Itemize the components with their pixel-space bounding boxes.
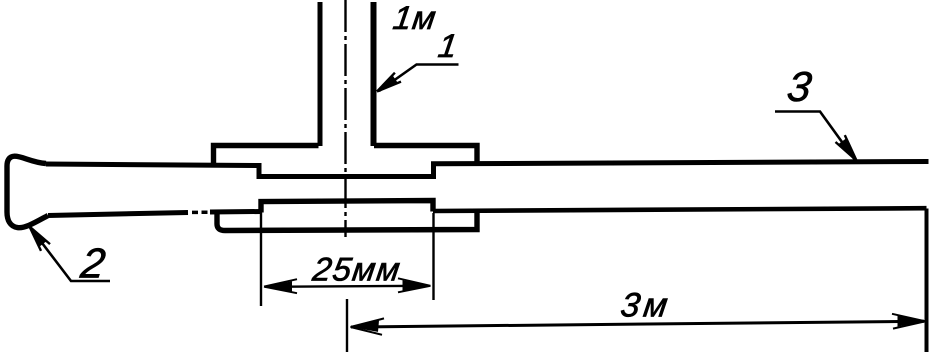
svg-text:25мм: 25мм	[309, 252, 403, 289]
mast centerline (dash-dot)	[344, 0, 346, 237]
svg-text:1м: 1м	[391, 0, 439, 37]
25mm left extension line	[260, 204, 262, 306]
3m dimension line	[351, 321, 924, 327]
bottom clamp plate	[217, 212, 477, 231]
lower tube line right of sleeve	[433, 208, 927, 211]
element 2 lower line break dashes	[192, 210, 208, 214]
25mm dimension line	[265, 286, 429, 287]
element 3 boom line (top horizontal with joint step)	[46, 162, 929, 177]
leader line for label 2	[30, 227, 111, 282]
3m right arrowhead	[892, 314, 926, 329]
3m left arrowhead	[351, 318, 385, 334]
svg-text:1: 1	[436, 28, 460, 65]
25mm right arrowhead	[398, 278, 431, 292]
25mm left arrowhead	[264, 279, 297, 293]
element 2 lower line (to sleeve)	[210, 209, 261, 215]
svg-text:2: 2	[77, 240, 108, 287]
arrowhead for label 1	[377, 73, 401, 92]
3m right extension line	[925, 209, 929, 353]
leader line for label 3	[775, 112, 855, 161]
arrowhead for label 2	[30, 227, 51, 251]
arrowhead for label 3	[836, 135, 857, 160]
element 2 lower line (left part)	[48, 213, 188, 216]
25mm right extension line	[432, 213, 434, 300]
element 2 left end cap	[7, 156, 48, 228]
centerline extension to 3m dimension	[346, 299, 348, 352]
leader line for label 1	[379, 65, 459, 92]
svg-text:3м: 3м	[618, 287, 674, 325]
top clamp plate	[214, 146, 478, 167]
sleeve joint over lower tube	[261, 201, 433, 213]
mast tube 1 left wall	[318, 2, 323, 146]
svg-text:3: 3	[785, 63, 815, 110]
mast tube 1 right wall	[371, 2, 377, 146]
